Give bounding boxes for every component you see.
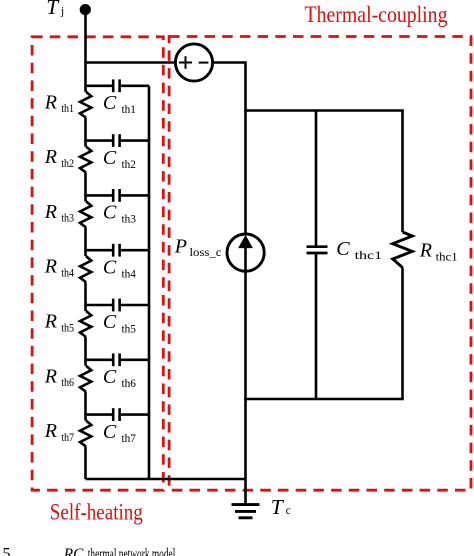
svg-text:thc1: thc1 [436,251,458,263]
wire: C_thc1 bottom lead [315,254,318,399]
voltage source circle [175,44,212,81]
resistor R_th4 [80,256,91,282]
svg-text:c: c [286,505,291,517]
voltage source plus sign [179,56,192,69]
svg-text:R: R [44,201,57,223]
wire: below R_th6 [84,392,87,421]
resistor R_th5 [80,311,91,337]
wire: capacitor right rail [148,86,151,479]
svg-text:th6: th6 [61,377,74,389]
svg-text:R: R [419,240,432,262]
svg-text:5: 5 [3,546,11,556]
wire: below R_th7 [84,447,87,479]
thermal-coupling dashed box [169,37,471,491]
svg-text:C: C [103,311,117,333]
wire: R_thc1 top lead [401,111,404,233]
svg-text:C: C [103,147,117,169]
wire: down to ground [244,399,247,504]
wire: voltage source to top-right corner [212,63,246,237]
svg-text:th1: th1 [122,104,137,116]
svg-text:th3: th3 [122,214,137,226]
svg-text:C: C [103,202,117,224]
svg-text:th1: th1 [61,103,74,115]
svg-text:th7: th7 [122,433,137,445]
svg-text:RC: RC [63,546,84,556]
wire: below R_th4 [84,282,87,311]
svg-text:R: R [44,311,57,333]
capacitor C_th4 [113,244,119,257]
wire: through current source down to bottom rail [244,240,247,399]
wire: cap branch left lead row 3 [86,194,113,197]
resistor R_th3 [80,201,91,227]
node T_j dot [80,4,91,15]
wire: cap branch right lead row 4 [121,249,149,252]
wire: below R_th2 [84,173,87,202]
capacitor C_th6 [113,353,119,366]
svg-text:thermal network model: thermal network model [88,546,176,556]
svg-text:R: R [44,256,57,278]
svg-text:th5: th5 [61,322,74,334]
svg-text:T: T [46,0,60,19]
wire: thermal-coupling top rail [244,109,404,112]
svg-text:R: R [44,91,57,113]
svg-text:loss_c: loss_c [190,247,222,259]
svg-text:th3: th3 [61,213,74,225]
capacitor C_th3 [113,189,119,202]
current source arrow [238,235,253,248]
wire: node to voltage source [86,61,177,64]
capacitor C_th1 [113,79,119,92]
svg-text:C: C [103,366,117,388]
wire: cap branch right lead row 7 [121,413,149,416]
wire: below R_th5 [84,337,87,366]
wire: below R_th3 [84,227,87,256]
wire: cap branch left lead row 2 [86,139,113,142]
capacitor C_th2 [113,134,119,147]
self-heating dashed box [32,37,163,490]
svg-text:Thermal-coupling: Thermal-coupling [305,2,448,27]
svg-text:th5: th5 [122,323,137,335]
resistor R_th7 [80,421,91,447]
wire: cap branch right lead row 3 [121,194,149,197]
svg-text:th4: th4 [122,269,137,281]
capacitor C_th5 [113,299,119,312]
svg-text:C: C [103,421,117,443]
ground symbol [232,505,260,518]
svg-text:Self-heating: Self-heating [50,500,143,525]
svg-text:T: T [271,495,285,519]
resistor R_thc1 [393,232,413,268]
wire: cap branch right lead row 1 [121,85,149,88]
svg-text:th6: th6 [122,378,137,390]
svg-text:R: R [44,146,57,168]
capacitor C_thc1 [307,247,328,253]
wire: cap branch left lead row 7 [86,413,113,416]
wire: cap branch right lead row 2 [121,139,149,142]
wire: below R_th1 [84,118,87,147]
wire: cap branch right lead row 6 [121,358,149,361]
wire: cap branch right lead row 5 [121,304,149,307]
resistor R_th6 [80,366,91,392]
svg-text:C: C [103,92,117,114]
wire: T_j down to R_th1 [84,10,87,92]
wire: cap branch left lead row 6 [86,358,113,361]
voltage source minus sign [199,62,209,64]
wire: self-heating bottom rail [86,478,246,481]
svg-text:P: P [174,235,187,257]
capacitor C_th7 [113,408,119,421]
svg-text:R: R [44,365,57,387]
wire: thermal-coupling bottom rail [244,398,404,401]
svg-text:j: j [60,5,64,17]
svg-text:th2: th2 [61,158,74,170]
svg-text:R: R [44,420,57,442]
resistor R_th1 [80,92,91,118]
wire: R_thc1 bottom lead [401,268,404,400]
wire: C_thc1 top lead [315,111,318,246]
wire: cap branch left lead row 1 [86,85,113,88]
svg-text:th2: th2 [122,159,137,171]
wire: cap branch left lead row 4 [86,249,113,252]
svg-text:C: C [103,256,117,278]
resistor R_th2 [80,147,91,173]
current source P_loss_c circle [227,234,264,271]
svg-text:th7: th7 [61,432,74,444]
svg-text:C: C [336,238,350,260]
wire: cap branch left lead row 5 [86,304,113,307]
svg-text:thc1: thc1 [355,250,383,262]
svg-text:th4: th4 [61,268,74,280]
